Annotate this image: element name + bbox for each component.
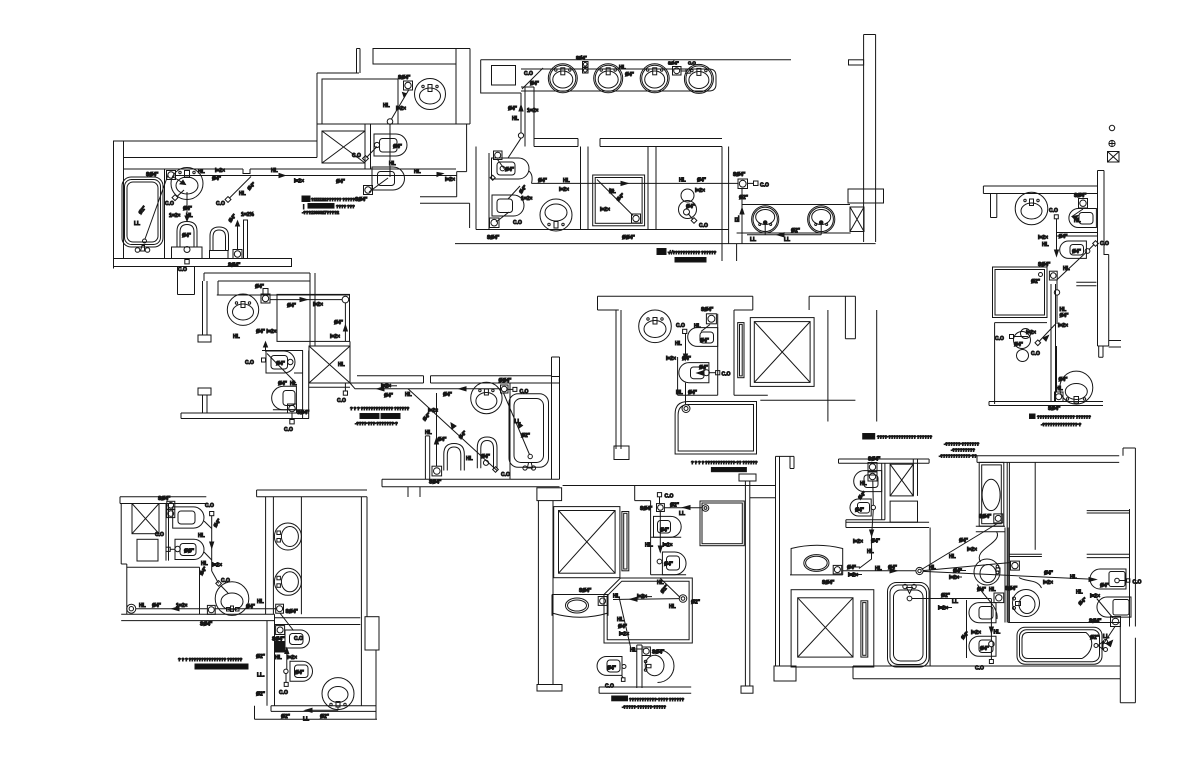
storage room bbox=[277, 294, 350, 341]
wall: right band bbox=[1130, 470, 1136, 703]
svg-text:HL: HL bbox=[949, 554, 956, 560]
svg-text:C.O: C.O bbox=[699, 223, 708, 229]
svg-text:HL: HL bbox=[619, 65, 626, 71]
svg-text:I=2×: I=2× bbox=[971, 630, 981, 636]
shower column bbox=[979, 462, 1004, 526]
svg-text:HL: HL bbox=[563, 178, 570, 184]
legend: floor drain circle bbox=[1109, 125, 1114, 130]
svg-text:Ø2": Ø2" bbox=[256, 692, 266, 698]
floor drain bbox=[288, 404, 297, 413]
svg-text:HL: HL bbox=[466, 456, 473, 462]
wall: right verticals bbox=[828, 310, 877, 422]
svg-text:HL.: HL. bbox=[645, 543, 654, 549]
svg-text:I=2×: I=2× bbox=[853, 539, 863, 545]
svg-text:Ø4": Ø4" bbox=[686, 204, 696, 210]
toilet B2 (facing left) bbox=[272, 386, 297, 410]
svg-text:C.O: C.O bbox=[665, 494, 674, 500]
svg-text:???????????·???? ??????: ???????????·???? ?????? bbox=[629, 697, 684, 702]
pipe vertical bbox=[659, 512, 661, 553]
wall: lower room bbox=[255, 621, 378, 720]
wall: storage room bbox=[322, 79, 398, 124]
wall: left outer bbox=[476, 147, 489, 230]
svg-text:Ø4": Ø4" bbox=[699, 365, 709, 371]
wash basin 1 bbox=[548, 64, 577, 93]
wall: left band bbox=[616, 310, 621, 449]
svg-text:HL: HL bbox=[613, 594, 620, 600]
svg-text:LL: LL bbox=[952, 599, 958, 605]
wall below elevator bbox=[760, 399, 855, 401]
wall: bottom band bbox=[181, 413, 309, 419]
pipe LL bbox=[306, 707, 338, 710]
drain S#4 bbox=[1111, 617, 1121, 627]
svg-text:I=2×: I=2× bbox=[212, 563, 222, 569]
floor drain bbox=[432, 466, 442, 476]
svg-text:HL: HL bbox=[275, 655, 282, 661]
pedestal basin 1 with curved counter bbox=[974, 559, 1000, 585]
svg-text:Ø2": Ø2" bbox=[791, 228, 801, 234]
svg-text:Ø4": Ø4" bbox=[871, 539, 881, 545]
svg-text:ØØ4": ØØ4" bbox=[499, 378, 513, 384]
wall: upper-right room bbox=[317, 73, 359, 158]
wall: left stub bbox=[991, 194, 997, 218]
svg-text:SØ4": SØ4" bbox=[1074, 193, 1087, 199]
floor drain S#4 bbox=[167, 171, 176, 180]
wall: band right of X-box bbox=[365, 124, 371, 169]
svg-text:ØØ4": ØØ4" bbox=[622, 235, 636, 241]
svg-text:SØ4": SØ4" bbox=[398, 75, 411, 81]
svg-text:Ø4": Ø4" bbox=[393, 144, 403, 150]
svg-text:HL: HL bbox=[669, 604, 676, 610]
elevator X-box big bbox=[791, 590, 874, 667]
pipe vertical bbox=[436, 393, 438, 466]
elevator X-box bbox=[554, 507, 620, 578]
pipe chase below slab bbox=[178, 267, 195, 295]
toilet H1 (arch left) bbox=[1090, 569, 1126, 589]
svg-text:SØ4": SØ4" bbox=[1048, 406, 1061, 412]
pipe riser with C.O diamond bbox=[225, 197, 231, 203]
pipe vertical bidet room bbox=[990, 599, 992, 660]
svg-text:Ø4": Ø4" bbox=[1060, 313, 1070, 319]
svg-text:C.O: C.O bbox=[294, 636, 303, 642]
svg-text:Ø2": Ø2" bbox=[941, 593, 951, 599]
wall: top-left outer band bbox=[114, 141, 318, 269]
shaft X-box bbox=[309, 346, 350, 383]
svg-text:SØ4": SØ4" bbox=[355, 197, 368, 203]
svg-text:LL: LL bbox=[515, 419, 521, 425]
wash basin bbox=[1015, 192, 1048, 225]
svg-text:C.O: C.O bbox=[279, 690, 288, 696]
svg-text:?111122?????? ?????: ?111122?????? ????? bbox=[311, 197, 355, 202]
title text block bbox=[612, 696, 628, 701]
toilet 2 (facing left) bbox=[1060, 241, 1087, 258]
svg-text:HL: HL bbox=[414, 169, 421, 175]
svg-text:C.O: C.O bbox=[1049, 208, 1058, 214]
svg-text:C.O: C.O bbox=[245, 360, 254, 366]
svg-text:Ø4": Ø4" bbox=[212, 176, 222, 182]
wall: divider A/B bbox=[581, 147, 589, 230]
floor drain S#4 bbox=[404, 81, 413, 90]
floor drain S#4 bbox=[276, 604, 284, 613]
svg-text:I=2×: I=2× bbox=[294, 179, 304, 185]
clean-out top bbox=[657, 493, 661, 497]
title text block bbox=[302, 196, 310, 202]
svg-text:Ø4" I=2×: Ø4" I=2× bbox=[256, 329, 277, 335]
svg-text:SØ4": SØ4" bbox=[576, 55, 587, 60]
wall: right stubs bbox=[1109, 341, 1121, 348]
svg-text:HL: HL bbox=[630, 648, 637, 654]
drain S#4 bbox=[994, 593, 1004, 603]
svg-text:SØ4": SØ4" bbox=[146, 172, 159, 178]
wall: floor slab band bottom bbox=[114, 259, 292, 267]
clean-out C.O below slab bbox=[185, 260, 189, 264]
floor band bbox=[853, 666, 1120, 679]
svg-text:C.O: C.O bbox=[165, 201, 174, 207]
legend: shaft box bbox=[1108, 152, 1120, 163]
svg-text:Ø4": Ø4" bbox=[682, 356, 692, 362]
wall: top band of right bathroom bbox=[350, 376, 560, 383]
svg-text:LL: LL bbox=[303, 717, 309, 723]
svg-text:HL: HL bbox=[201, 561, 208, 567]
alcove walls bbox=[262, 351, 309, 419]
svg-text:Ø4": Ø4" bbox=[1072, 249, 1082, 255]
svg-text:-????????????·??: -????????????·?? bbox=[939, 454, 977, 459]
wash basin oval bbox=[227, 294, 258, 325]
pipe riser to toilet B1 bbox=[265, 342, 267, 352]
counter with basins bbox=[521, 69, 716, 91]
floor line bbox=[476, 229, 729, 231]
svg-text:HL: HL bbox=[617, 617, 624, 623]
bathtub taps bbox=[523, 466, 527, 470]
bathtub vertical bbox=[888, 583, 930, 668]
svg-text:SØ4": SØ4" bbox=[822, 580, 835, 586]
shaft X-box bbox=[890, 464, 913, 496]
pipe diagonal to junction bbox=[660, 578, 680, 598]
svg-text:Ø4": Ø4" bbox=[618, 624, 628, 630]
bathtub bbox=[122, 177, 163, 247]
pedestal basin bbox=[645, 655, 664, 675]
wall: top bbox=[598, 296, 753, 310]
clean-out diamond bbox=[212, 571, 219, 583]
svg-text:1=2×: 1=2× bbox=[169, 213, 180, 219]
svg-text:Ø4": Ø4" bbox=[660, 528, 670, 534]
main pipe HL bbox=[532, 182, 754, 184]
toilet arch 2 bbox=[477, 437, 497, 468]
svg-text:LL: LL bbox=[134, 221, 140, 227]
svg-text:I=2×: I=2× bbox=[215, 168, 225, 174]
wall: room top bbox=[217, 294, 350, 296]
pipe vertical bbox=[1056, 219, 1058, 256]
svg-text:HL: HL bbox=[389, 161, 396, 167]
vanity with basin bbox=[790, 545, 843, 575]
pipe drain to basin bbox=[172, 177, 185, 185]
svg-text:HL: HL bbox=[239, 191, 246, 197]
counter right room bbox=[742, 204, 850, 206]
pipe riser bbox=[872, 482, 875, 506]
wall: left interior line bbox=[123, 158, 125, 260]
svg-text:SØ4": SØ4" bbox=[429, 480, 442, 486]
pipe riser with junction bbox=[1054, 290, 1059, 295]
svg-text:Ø4": Ø4" bbox=[295, 670, 305, 676]
svg-text:LL: LL bbox=[750, 237, 756, 243]
storage box bbox=[890, 501, 917, 522]
wall: band rectangle bbox=[373, 49, 456, 65]
wash basin oval bbox=[215, 582, 249, 616]
svg-text:SØ4": SØ4" bbox=[579, 588, 592, 594]
svg-text:Ø4": Ø4" bbox=[530, 81, 540, 87]
svg-text:EL: EL bbox=[735, 216, 741, 222]
toilet E2 (facing right) bbox=[662, 552, 686, 575]
toilet A1 (facing right) bbox=[492, 158, 530, 179]
svg-text:C.O: C.O bbox=[676, 323, 685, 329]
svg-text:I=2×: I=2× bbox=[1058, 323, 1068, 329]
svg-text:Ø4": Ø4" bbox=[855, 508, 865, 514]
svg-text:C.O: C.O bbox=[337, 398, 346, 404]
toilet F (facing left) bbox=[597, 657, 622, 676]
pipe C.O corner branch bbox=[522, 68, 543, 89]
svg-text:HL: HL bbox=[271, 168, 278, 174]
pipe vertical bbox=[286, 648, 288, 669]
floor drain S#4 bbox=[1055, 392, 1064, 402]
partition bbox=[637, 645, 642, 688]
svg-text:HL: HL bbox=[257, 599, 264, 605]
svg-text:I=2×: I=2× bbox=[1090, 594, 1100, 600]
wash basin oval up bbox=[471, 382, 502, 413]
pipe through wall bbox=[215, 608, 276, 610]
wall: top band left part bbox=[839, 459, 930, 463]
pipe LL tub waste diagonal bbox=[145, 175, 168, 239]
pipe vertical bbox=[344, 303, 346, 342]
svg-text:LL: LL bbox=[679, 511, 685, 517]
svg-text:ØØ": ØØ" bbox=[184, 549, 195, 555]
svg-text:LL.: LL. bbox=[257, 673, 265, 679]
svg-text:SØ4": SØ4" bbox=[733, 172, 746, 178]
wall: top band bbox=[983, 186, 1097, 194]
svg-text:I=2×: I=2× bbox=[330, 334, 340, 340]
svg-text:I=2×: I=2× bbox=[938, 606, 948, 612]
main pipe with junction bbox=[843, 570, 916, 572]
svg-text:SØ4": SØ4" bbox=[200, 622, 213, 628]
svg-text:I=2×: I=2× bbox=[663, 543, 673, 549]
svg-text:C.O: C.O bbox=[1031, 351, 1040, 357]
svg-text:C.O: C.O bbox=[352, 153, 361, 159]
svg-text:HL: HL bbox=[860, 481, 867, 487]
svg-text:Ø4": Ø4" bbox=[1059, 234, 1069, 240]
shower square room bbox=[700, 501, 744, 546]
wall: bathroom interior top bbox=[124, 169, 457, 174]
wall: right band bbox=[552, 357, 560, 479]
toilet 2 (facing right) bbox=[372, 167, 405, 190]
wash basin oval bottom bbox=[322, 678, 354, 710]
bathtub taps bbox=[135, 248, 140, 253]
svg-text:SØ4": SØ4" bbox=[286, 609, 299, 615]
clean-out C.O basin bbox=[172, 195, 178, 201]
svg-text:Ø4": Ø4" bbox=[980, 646, 990, 652]
wall stubs bbox=[1009, 554, 1042, 556]
wall: right band bbox=[1098, 171, 1109, 347]
wall stub below toilets bbox=[1076, 282, 1096, 285]
floor band bbox=[599, 687, 691, 693]
wall: shaft enclosure bbox=[563, 486, 776, 575]
svg-text:SØ4": SØ4" bbox=[979, 514, 992, 520]
wall below storage bbox=[349, 341, 351, 383]
shower enclosure bbox=[993, 267, 1048, 318]
svg-text:Ø2": Ø2" bbox=[281, 714, 291, 720]
wash basin 3 bbox=[640, 64, 669, 93]
pipe horizontal bbox=[613, 598, 679, 601]
svg-text:HL: HL bbox=[139, 603, 146, 609]
svg-text:Ø2": Ø2" bbox=[320, 714, 330, 720]
svg-text:SØ4": SØ4" bbox=[1005, 586, 1018, 592]
svg-text:I=2×: I=2× bbox=[848, 573, 858, 579]
wall: band between toilets bbox=[1057, 233, 1098, 237]
svg-text:SØ4": SØ4" bbox=[640, 506, 653, 512]
svg-text:???? ???: ???? ??? bbox=[336, 204, 355, 209]
svg-text:SØ4": SØ4" bbox=[297, 410, 310, 416]
floor drain S#4 bbox=[501, 385, 509, 393]
svg-text:Ø4": Ø4" bbox=[688, 390, 698, 396]
wall: left outer band bbox=[776, 456, 795, 666]
clean-out diamond bbox=[363, 156, 369, 162]
wall: band under toilets bbox=[846, 520, 929, 528]
floor bands bbox=[121, 614, 360, 624]
svg-text:Ø4": Ø4" bbox=[438, 437, 448, 443]
main pipe bbox=[350, 383, 501, 389]
toilet I2 (arch left) bbox=[969, 636, 996, 656]
floor drain bbox=[263, 289, 268, 295]
svg-text:SØ4": SØ4" bbox=[701, 307, 714, 313]
pipe vertical to floor drain bbox=[237, 221, 239, 249]
wash basin bbox=[639, 310, 672, 343]
toilet A2 (facing right) bbox=[492, 195, 524, 216]
svg-text:Ø4": Ø4" bbox=[334, 320, 344, 326]
svg-text:Ø4": Ø4" bbox=[336, 179, 346, 185]
floor band bbox=[989, 402, 1103, 406]
floor drain S#4 right bbox=[738, 179, 748, 189]
svg-text:Ø4": Ø4" bbox=[508, 106, 518, 112]
svg-text:Ø4": Ø4" bbox=[183, 206, 193, 212]
svg-text:SØ4": SØ4" bbox=[1038, 262, 1051, 268]
wall: right top band bbox=[809, 296, 855, 339]
lavatory group bbox=[1014, 332, 1031, 349]
svg-text:I=2×: I=2× bbox=[1026, 330, 1036, 336]
svg-text:Ø2": Ø2" bbox=[521, 433, 531, 439]
svg-text:SØ4": SØ4" bbox=[668, 61, 679, 66]
svg-text:C.O: C.O bbox=[155, 532, 164, 538]
pipe LL branch bbox=[664, 507, 702, 509]
pipe toilet to drain bbox=[1057, 253, 1086, 280]
wash basin 2 bbox=[594, 64, 623, 93]
svg-text:Ø4": Ø4" bbox=[697, 178, 707, 184]
pedestal basin 2 with curved counter bbox=[1019, 578, 1042, 589]
svg-text:Ø4": Ø4" bbox=[664, 562, 674, 568]
pipe vertical bbox=[389, 124, 391, 177]
svg-text:Ø4": Ø4" bbox=[443, 392, 453, 398]
wall: bidet niche bbox=[966, 600, 968, 658]
svg-text:I=2×: I=2× bbox=[396, 106, 406, 112]
floor drain S#4 2 bbox=[276, 626, 285, 635]
pipe to floor drain bbox=[369, 178, 388, 192]
svg-text:C.O: C.O bbox=[722, 372, 731, 378]
shower room bbox=[604, 578, 692, 643]
svg-text:? ? ? ??????????????? ??????: ? ? ? ??????????????? ?????? bbox=[178, 657, 243, 662]
wall: top band BL bbox=[120, 497, 206, 504]
svg-text:C.O: C.O bbox=[501, 472, 510, 478]
wall: left band with caps bbox=[537, 488, 562, 501]
pipe basin riser diagonal bbox=[392, 90, 410, 120]
svg-text:I=2×: I=2× bbox=[559, 187, 569, 193]
vanity bbox=[552, 595, 608, 618]
wall: left outer band bbox=[203, 281, 208, 335]
svg-text:I=2×: I=2× bbox=[619, 632, 629, 638]
pipe vertical bbox=[685, 334, 687, 361]
toilet H2 (arch left) bbox=[1097, 597, 1131, 617]
svg-text:-??????·???????: -??????·??????? bbox=[944, 442, 980, 447]
svg-text:Ø4": Ø4" bbox=[1100, 583, 1110, 589]
toilet I1 (arch left) bbox=[969, 603, 996, 623]
svg-text:C.O: C.O bbox=[205, 503, 214, 509]
svg-text:Ø4": Ø4" bbox=[607, 666, 617, 672]
wall: top band right part bbox=[977, 448, 1135, 470]
wall: right band of basin room bbox=[456, 49, 470, 125]
svg-text:SØ4": SØ4" bbox=[1089, 619, 1102, 625]
svg-text:Ø4": Ø4" bbox=[152, 603, 162, 609]
svg-text:-????·???·???????·?: -????·???·???????·? bbox=[355, 421, 398, 426]
pipe room bbox=[127, 604, 136, 613]
svg-text:HL: HL bbox=[994, 630, 1001, 636]
elevator door slot bbox=[622, 512, 629, 571]
svg-text:SØ4": SØ4" bbox=[228, 263, 241, 269]
svg-text:Ø4": Ø4" bbox=[977, 587, 987, 593]
svg-text:HL: HL bbox=[1074, 218, 1081, 224]
title text block bbox=[657, 249, 666, 255]
chase solid bbox=[275, 642, 285, 653]
elevator X-box bbox=[750, 318, 814, 387]
svg-text:HL: HL bbox=[198, 533, 205, 539]
room walls bbox=[678, 314, 718, 395]
pipe shower column to junction bbox=[922, 523, 999, 570]
svg-text:LL: LL bbox=[784, 237, 790, 243]
room walls bbox=[995, 323, 1047, 404]
svg-text:HL: HL bbox=[1063, 266, 1070, 272]
svg-text:SØ4": SØ4" bbox=[158, 496, 171, 502]
svg-text:I=2×: I=2× bbox=[967, 547, 977, 553]
wall: left outer bbox=[121, 504, 127, 615]
room C drains bbox=[681, 189, 694, 202]
svg-text:C.O: C.O bbox=[688, 61, 696, 66]
main pipe HL horizontal bbox=[176, 175, 457, 177]
clean-out below shaft bbox=[344, 383, 346, 391]
svg-text:HL: HL bbox=[512, 116, 519, 122]
diagonal pipe bbox=[408, 389, 497, 471]
svg-text:Ø4": Ø4" bbox=[384, 393, 394, 399]
title text block bbox=[863, 434, 875, 440]
svg-text:C.O: C.O bbox=[216, 201, 225, 207]
svg-text:HL: HL bbox=[1076, 590, 1083, 596]
svg-text:HL: HL bbox=[1070, 575, 1077, 581]
bathtub horizontal bbox=[1008, 622, 1120, 624]
elevator door slot bbox=[738, 323, 744, 378]
svg-text:Ø2": Ø2" bbox=[1031, 279, 1041, 285]
svg-text:-???1308327????2: -???1308327????2 bbox=[302, 210, 340, 215]
wall: divider bbox=[1005, 528, 1008, 623]
svg-text:HL: HL bbox=[405, 392, 412, 398]
wash basin 4 bbox=[684, 64, 713, 93]
svg-text:C.O: C.O bbox=[513, 220, 522, 226]
wall: top slab band bbox=[204, 273, 310, 295]
svg-text:Ø4": Ø4" bbox=[1044, 571, 1054, 577]
svg-text:HL: HL bbox=[989, 587, 996, 593]
drain S#4 bbox=[1011, 561, 1020, 570]
